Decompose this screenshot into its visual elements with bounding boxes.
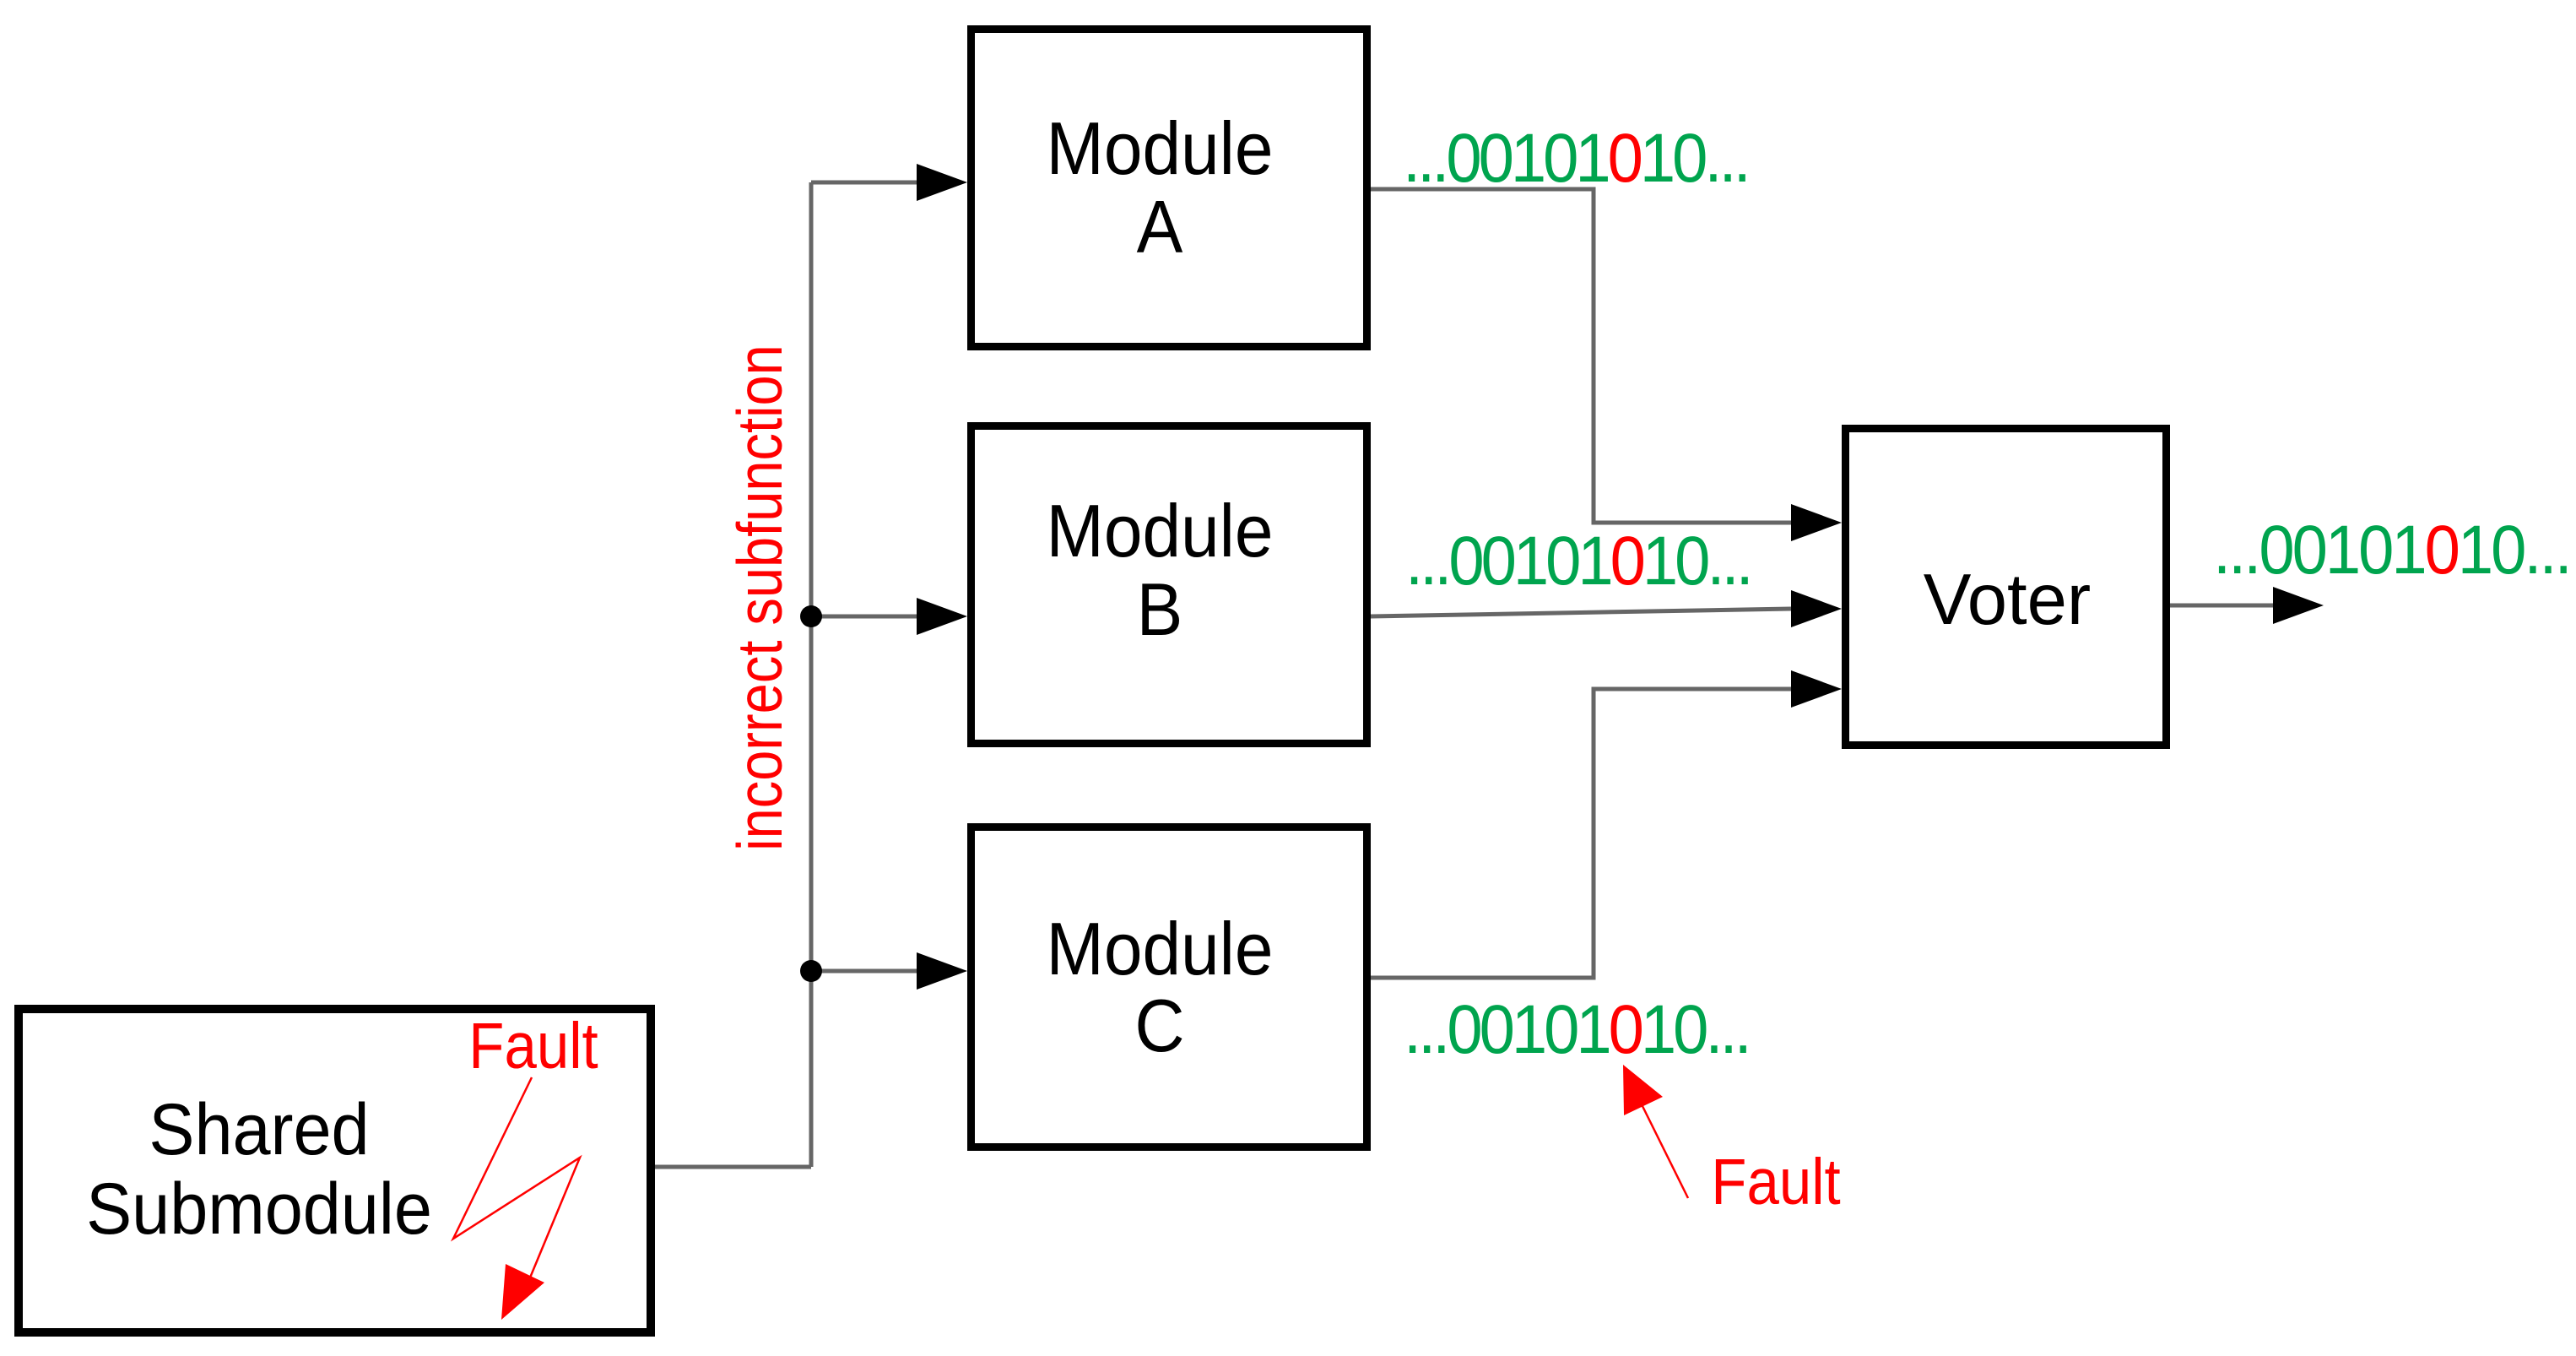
svg-text:...00101010...: ...00101010... [1405, 521, 1751, 599]
wire: vertical trunk [809, 182, 814, 1167]
arrowhead Voter output [2273, 587, 2324, 624]
wire: branch to Module A [811, 181, 920, 185]
arrowhead into Module A [917, 164, 967, 201]
wire: shared submodule output to trunk [655, 1165, 811, 1169]
wire: Module C output to Voter [1371, 689, 1791, 978]
node: junction dot C [800, 960, 822, 982]
svg-text:...00101010...: ...00101010... [1404, 990, 1749, 1067]
svg-text:Fault: Fault [468, 1009, 598, 1082]
svg-text:Submodule: Submodule [86, 1168, 432, 1250]
wire: branch to Module B [811, 615, 920, 619]
arrowhead into Voter middle [1791, 590, 1842, 627]
arrowhead into Module B [917, 598, 967, 635]
svg-text:Module: Module [1047, 908, 1274, 991]
fault arrow to binary stream C [1638, 1098, 1688, 1198]
box Shared Submodule [19, 1009, 651, 1332]
svg-text:Module: Module [1047, 490, 1274, 573]
svg-text:Voter: Voter [1924, 560, 2091, 640]
arrowhead into Module C [917, 952, 967, 990]
box Voter [1846, 429, 2167, 746]
box Module B [971, 426, 1367, 744]
svg-text:...00101010...: ...00101010... [2213, 510, 2570, 588]
wire: branch to Module C [811, 969, 920, 974]
arrowhead into Voter top [1791, 504, 1842, 541]
fault lightning arrow (shared submodule) [453, 1077, 580, 1282]
node: junction dot B [800, 605, 822, 627]
svg-text:A: A [1137, 186, 1183, 269]
svg-text:Fault: Fault [1711, 1145, 1840, 1218]
box Module C [971, 827, 1367, 1147]
svg-text:C: C [1134, 984, 1184, 1068]
wire: Module A output to Voter [1371, 189, 1791, 523]
svg-text:...00101010...: ...00101010... [1403, 118, 1748, 196]
box Module A [971, 30, 1367, 347]
svg-text:incorrect subfunction: incorrect subfunction [725, 344, 795, 851]
svg-text:B: B [1137, 568, 1183, 652]
svg-text:Shared: Shared [149, 1088, 369, 1170]
wire: Voter output [2170, 604, 2273, 608]
arrowhead into Voter bottom [1791, 670, 1842, 708]
wire: Module B output to Voter [1371, 609, 1791, 616]
svg-text:Module: Module [1047, 107, 1274, 191]
